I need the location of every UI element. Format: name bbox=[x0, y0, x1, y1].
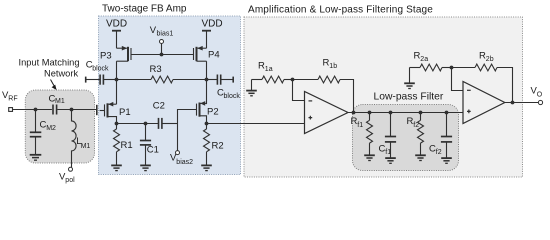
wire C2/Vbias2 riser to P2 gate bbox=[178, 110, 197, 151]
svg-text:C1: C1 bbox=[147, 145, 159, 156]
svg-text:bias2: bias2 bbox=[176, 159, 193, 166]
wire gate bus Vbias1 to P4 bbox=[162, 54, 194, 56]
svg-text:M1: M1 bbox=[55, 98, 65, 105]
resistor Rf1 bbox=[351, 113, 373, 155]
svg-text:block: block bbox=[92, 66, 109, 73]
op-amp U2 bbox=[463, 82, 505, 124]
capacitor Cf1 bbox=[379, 113, 397, 158]
svg-text:P2: P2 bbox=[207, 107, 219, 118]
resistor R3 bbox=[117, 64, 207, 83]
svg-text:Network: Network bbox=[44, 68, 78, 78]
node: C1 tap bbox=[144, 122, 148, 126]
ground (Cf1) bbox=[385, 158, 396, 163]
wire C_M1 to P1 gate plate bbox=[57, 109, 96, 111]
svg-text:1a: 1a bbox=[265, 66, 273, 73]
ground (Rf1) bbox=[364, 155, 375, 160]
capacitor C_block (left) label bbox=[86, 60, 109, 73]
svg-text:R3: R3 bbox=[150, 64, 162, 75]
ground (Rf2) bbox=[415, 155, 426, 160]
svg-text:Input Matching: Input Matching bbox=[19, 57, 80, 67]
capacitor C_M1 bbox=[49, 94, 65, 115]
svg-text:M1: M1 bbox=[81, 143, 91, 150]
capacitor Cf2 bbox=[429, 113, 452, 158]
wire P2 drain node to op-amp U1 + input bbox=[207, 123, 305, 125]
capacitor C1 bbox=[140, 124, 159, 166]
wire U2 output to VO port bbox=[505, 102, 539, 104]
transistor P1 bbox=[105, 102, 131, 124]
node: C_f1 tap bbox=[389, 111, 393, 115]
node: C_M2 tap junction bbox=[34, 108, 38, 112]
svg-text:f2: f2 bbox=[436, 149, 442, 156]
resistor Rf2 bbox=[407, 113, 424, 155]
svg-text:O: O bbox=[537, 91, 543, 98]
svg-text:VDD: VDD bbox=[202, 19, 223, 30]
capacitor C_block (right) bbox=[207, 75, 241, 101]
ground (C1) bbox=[140, 165, 151, 170]
block box: Input Matching Network (gray rounded) bbox=[19, 57, 95, 163]
resistor R2a bbox=[410, 51, 452, 71]
node: U1 output bbox=[352, 111, 356, 115]
transistor P2 bbox=[197, 101, 219, 123]
op-amp U1 bbox=[305, 92, 349, 134]
node: U2 inverting junction bbox=[450, 66, 454, 70]
ground (R2) bbox=[201, 165, 212, 170]
node B: P4 drain / R3 right / C_block-right / P2 source rail bbox=[205, 78, 209, 82]
svg-text:Amplification & Low-pass Filte: Amplification & Low-pass Filtering Stage bbox=[248, 5, 433, 16]
ground (R_2a) bbox=[404, 68, 415, 89]
block box: Low-pass Filter (gray rounded) bbox=[353, 92, 459, 171]
svg-text:VDD: VDD bbox=[106, 19, 127, 30]
svg-text:P4: P4 bbox=[208, 50, 220, 61]
power VDD (right) bbox=[202, 19, 223, 49]
transistor P3 bbox=[100, 46, 162, 62]
input boundary plate (left plate of gate coupling) bbox=[96, 105, 98, 115]
wire junction down to U1 - input bbox=[293, 80, 305, 101]
wire: right rail (P4 drain to P2 source) bbox=[206, 61, 208, 104]
svg-text:1b: 1b bbox=[329, 63, 337, 70]
svg-text:2b: 2b bbox=[486, 56, 494, 63]
inductor L_M1 bbox=[72, 110, 91, 168]
svg-text:M2: M2 bbox=[46, 125, 56, 132]
ground (Cf2) bbox=[441, 158, 452, 163]
resistor R1a bbox=[252, 61, 293, 83]
transistor P4 bbox=[194, 46, 220, 61]
wire junction down to U2 - input bbox=[452, 68, 464, 91]
node: L_M1 tap junction bbox=[70, 108, 74, 112]
wire U1 output row through low-pass filter to U2 + input bbox=[348, 112, 463, 114]
wire node row to C2 bbox=[117, 123, 159, 125]
svg-text:pol: pol bbox=[65, 177, 75, 184]
svg-text:C2: C2 bbox=[153, 101, 165, 112]
svg-text:block: block bbox=[224, 93, 241, 100]
capacitor C_block (left) bbox=[86, 75, 117, 85]
node: C_f2 tap bbox=[445, 111, 449, 115]
svg-text:2a: 2a bbox=[420, 56, 428, 63]
resistor R2 bbox=[204, 124, 224, 166]
ground (C_M2) bbox=[30, 155, 42, 160]
node Vpol port bbox=[59, 167, 75, 184]
capacitor C_M2 bbox=[30, 110, 56, 155]
svg-text:Two-stage FB Amp: Two-stage FB Amp bbox=[102, 4, 187, 15]
ground (R1) bbox=[111, 165, 122, 170]
pointer arrow to input matching network bbox=[51, 80, 57, 91]
node: R_f2 tap bbox=[419, 111, 423, 115]
power VDD (left) bbox=[106, 19, 127, 49]
svg-text:P1: P1 bbox=[119, 107, 131, 118]
block box: Two-stage FB Amp bbox=[99, 4, 241, 175]
svg-text:Low-pass Filter: Low-pass Filter bbox=[374, 92, 444, 103]
wire: left rail (P3 drain to P1 source) bbox=[116, 61, 118, 104]
wire box edge to P1 gate bbox=[100, 110, 105, 112]
resistor R2b bbox=[452, 51, 513, 103]
resistor R1 bbox=[114, 124, 133, 166]
svg-text:bias1: bias1 bbox=[157, 30, 174, 37]
ground (R_1a) bbox=[246, 80, 257, 96]
node: U2 output / R2b feedback bbox=[511, 101, 515, 105]
node A: P3 drain / R3 left / C_block-left / P1 source rail bbox=[115, 78, 119, 82]
node: P2 drain node bbox=[205, 122, 209, 126]
svg-text:R2: R2 bbox=[212, 141, 224, 152]
resistor R1b bbox=[293, 58, 354, 113]
svg-text:P3: P3 bbox=[100, 51, 112, 62]
stage box: Amplification & Low-pass Filtering Stage bbox=[244, 5, 523, 178]
svg-text:RF: RF bbox=[8, 96, 17, 103]
node Vbias2 port bbox=[170, 151, 193, 167]
node VO port bbox=[531, 86, 543, 105]
node VRF port bbox=[2, 90, 18, 111]
node: R_f1 tap bbox=[368, 111, 372, 115]
node: U1 inverting junction bbox=[291, 78, 295, 82]
node: P1 drain node bbox=[115, 122, 119, 126]
node Vbias1 port bbox=[150, 25, 174, 56]
svg-text:R1: R1 bbox=[121, 140, 133, 151]
wire VRF to C_M1 bbox=[13, 109, 52, 111]
capacitor C2 bbox=[153, 101, 178, 129]
svg-text:f1: f1 bbox=[357, 122, 363, 129]
